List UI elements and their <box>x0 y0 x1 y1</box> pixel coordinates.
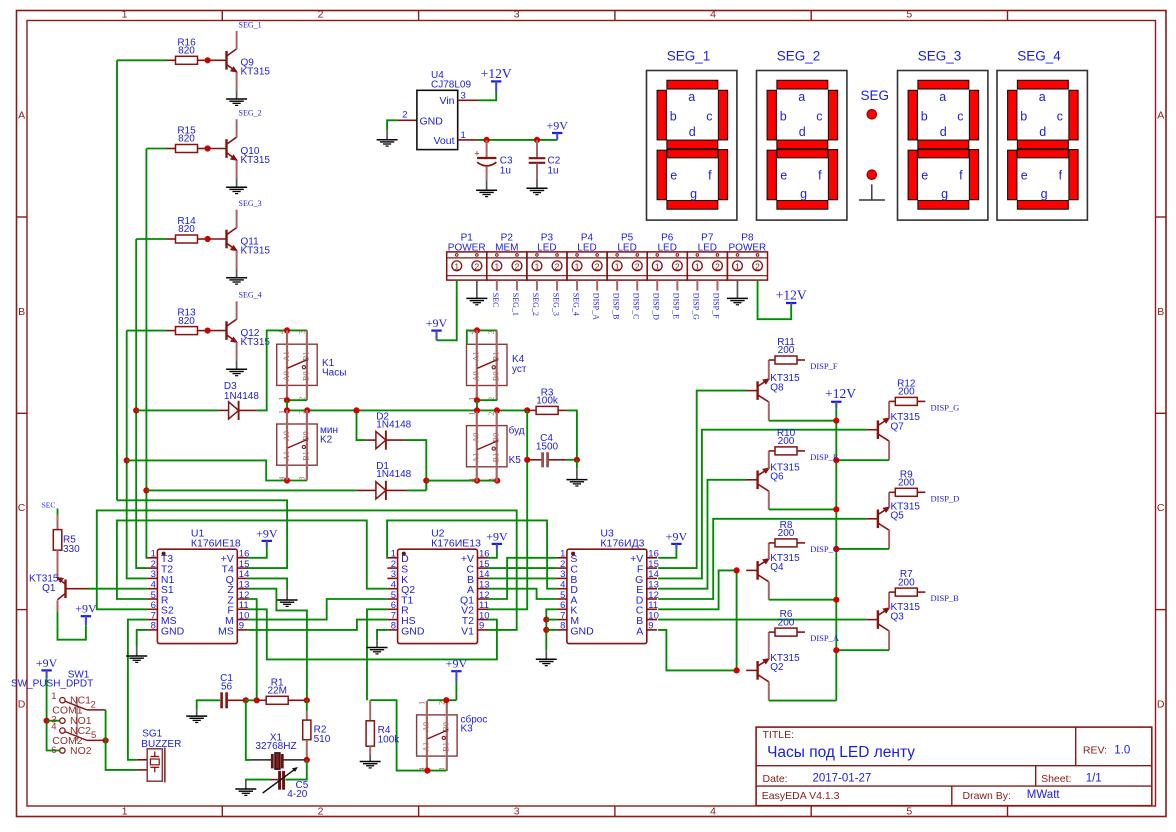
wire down to C5 <box>286 760 307 780</box>
svg-text:a: a <box>688 90 695 104</box>
svg-text:+9V: +9V <box>75 602 97 616</box>
net label DISP_A below connector <box>591 280 600 320</box>
svg-text:B: B <box>18 306 25 318</box>
colon dot upper <box>867 110 876 119</box>
net label SEC below connector <box>491 280 500 307</box>
ground at R4 <box>360 755 381 768</box>
svg-text:200: 200 <box>898 577 915 588</box>
svg-text:2: 2 <box>318 8 324 20</box>
svg-text:4: 4 <box>467 478 476 482</box>
wire to NO1 <box>47 720 60 722</box>
wire K4 bottom to bus <box>476 400 478 410</box>
wire K5 bottom pins line <box>426 480 497 482</box>
svg-text:1: 1 <box>575 261 580 271</box>
net label DISP_F below connector <box>712 280 721 319</box>
svg-text:B1: B1 <box>492 352 501 362</box>
junction dot C4 left <box>524 457 530 463</box>
junction dot K1 bottom left pin <box>284 397 290 403</box>
emitter stub of Q11 <box>236 251 238 269</box>
ground at U2 pin8 <box>367 640 388 654</box>
resistor R4 100k vertical <box>366 700 400 755</box>
connector P4 LED <box>567 233 607 281</box>
svg-text:2: 2 <box>515 261 520 271</box>
svg-text:SEG_4: SEG_4 <box>239 291 262 300</box>
svg-text:5: 5 <box>906 8 912 20</box>
svg-text:SEG_2: SEG_2 <box>239 109 262 118</box>
svg-text:SG1: SG1 <box>142 728 162 739</box>
capacitor C5 4-20 variable <box>263 767 309 800</box>
wire A net U3 pin9 to Q2 base <box>658 630 737 671</box>
svg-text:K5: K5 <box>509 455 522 466</box>
wire K2 bottom branch from SEG_4 column <box>127 460 308 480</box>
base stub Q8 <box>746 390 757 392</box>
IC U3 К176ИД3 <box>557 528 659 644</box>
svg-text:V1: V1 <box>461 625 474 637</box>
svg-text:4-20: 4-20 <box>287 789 307 800</box>
transistor Q6 KT315 <box>758 462 801 491</box>
junction dot SEG_3 / D3 branch <box>133 407 139 413</box>
svg-text:4: 4 <box>710 805 716 817</box>
svg-text:A0: A0 <box>472 433 481 443</box>
svg-text:a: a <box>1039 90 1046 104</box>
net label DISP_D below connector <box>651 280 660 320</box>
svg-text:GND: GND <box>420 115 444 127</box>
svg-text:820: 820 <box>178 134 195 145</box>
net label SEG_1 below connector <box>511 280 520 316</box>
svg-text:+9V: +9V <box>486 529 508 543</box>
svg-text:e: e <box>780 169 787 183</box>
wire K4 top pins line <box>467 330 497 344</box>
svg-text:Часы под LED ленту: Часы под LED ленту <box>767 744 915 761</box>
wire U1 pin12 Z down to R1 junction <box>248 599 257 700</box>
svg-text:KT315: KT315 <box>241 155 271 166</box>
svg-text:Date:: Date: <box>763 773 788 785</box>
svg-text:a: a <box>939 90 946 104</box>
wire G net U3 pin14 to Q7 base <box>658 430 866 579</box>
svg-text:SW_PUSH_DPDT: SW_PUSH_DPDT <box>11 678 93 689</box>
svg-text:MWatt: MWatt <box>1027 789 1061 801</box>
transistor Q3 KT315 <box>878 602 921 631</box>
wire P1 pin1 to +9V flag <box>437 291 457 341</box>
svg-text:8: 8 <box>391 621 396 632</box>
wire D net U3 pin12 to Q5 base <box>658 519 866 599</box>
svg-text:2: 2 <box>91 699 96 710</box>
svg-text:DISP_E: DISP_E <box>810 452 838 462</box>
svg-text:B0: B0 <box>302 371 311 381</box>
wire U2 pin8 GND to ground <box>377 630 387 640</box>
svg-text:+12V: +12V <box>481 66 512 81</box>
transistor Q4 KT315 <box>758 553 801 582</box>
net label DISP_B below connector <box>611 280 620 319</box>
ground at connector pin x=476.85 <box>476 280 478 290</box>
power flag +9V at U4 Vout <box>546 118 568 140</box>
relay K2 мин <box>277 410 338 481</box>
collector stub of Q9 <box>236 31 238 49</box>
svg-text:Q5: Q5 <box>891 511 905 522</box>
wire SW1 pin2 down to SG1 <box>106 710 137 770</box>
svg-text:DISP_G: DISP_G <box>931 402 960 412</box>
svg-text:B0: B0 <box>492 372 501 382</box>
svg-text:1: 1 <box>417 701 426 705</box>
relay K5 буд <box>467 412 525 483</box>
power flag +9V near K4 <box>426 316 448 340</box>
wire link Q4 base to Q2 base column <box>736 570 738 670</box>
wire +12V rail vertical <box>835 408 837 700</box>
junction dot Q2 base <box>734 667 740 673</box>
svg-text:e: e <box>670 169 677 183</box>
svg-text:B1: B1 <box>442 742 451 752</box>
svg-text:+9V: +9V <box>666 529 688 543</box>
svg-text:A0: A0 <box>472 371 481 381</box>
power flag +9V at SW1 <box>36 656 58 679</box>
junction dot D1-D2/K5 bottom <box>423 478 429 484</box>
wire U4 GND pin to ground <box>387 120 417 130</box>
net label DISP_G below connector <box>692 280 701 320</box>
svg-text:2: 2 <box>635 261 640 271</box>
junction dot C2 top <box>534 137 540 143</box>
svg-text:1: 1 <box>695 261 700 271</box>
collector stem Q6 <box>768 491 770 509</box>
svg-text:DISP_A: DISP_A <box>810 633 840 643</box>
junction dot K3 top right pin <box>443 697 449 703</box>
collector stem Q4 <box>768 582 770 600</box>
svg-text:A: A <box>636 625 643 637</box>
svg-text:B0: B0 <box>442 722 451 732</box>
svg-text:1u: 1u <box>548 165 559 176</box>
svg-text:SEG: SEG <box>860 88 889 103</box>
wire R13 to Q12 base <box>208 330 227 332</box>
wire U3 pin6 K to ground chain <box>546 609 556 650</box>
svg-text:B1: B1 <box>302 351 311 361</box>
svg-text:Q7: Q7 <box>891 422 905 433</box>
svg-text:A1: A1 <box>472 453 481 463</box>
wire D3 cathode up to K1 top pins <box>257 330 307 410</box>
wire E net U3 pin13 to Q6 base <box>658 480 746 589</box>
svg-text:200: 200 <box>778 528 795 539</box>
base stub Q4 <box>746 569 757 571</box>
wire D1 cathode to K5 bottom junction <box>406 489 426 491</box>
wire D3 anode from SEG_3 column <box>136 409 219 411</box>
svg-text:c: c <box>816 110 822 124</box>
wire U2 pin16 to +9V flag <box>487 550 497 558</box>
collector stub of Q10 <box>236 119 238 137</box>
svg-text:g: g <box>941 187 948 201</box>
svg-text:1/1: 1/1 <box>1086 772 1102 784</box>
junction dot rail at Q7 <box>833 457 839 463</box>
svg-text:EasyEDA V4.1.3: EasyEDA V4.1.3 <box>762 790 840 802</box>
emitter stem Q2 to R6 <box>768 632 770 659</box>
collector stem Q1 <box>57 600 59 612</box>
wire U1 pin13 Z staircase down <box>248 589 307 701</box>
svg-text:буд: буд <box>509 425 525 437</box>
wire bus y=410.4 K1 to R3 <box>287 409 527 411</box>
svg-text:GND: GND <box>161 625 185 637</box>
ground at U1 pin8 <box>126 646 147 662</box>
junction dot K4 top left pin <box>474 327 480 333</box>
emitter stem Q4 to R8 <box>768 543 770 559</box>
svg-text:d: d <box>799 125 806 139</box>
resistor R7 200 <box>889 569 925 596</box>
svg-text:Q1: Q1 <box>42 583 56 594</box>
junction dot SW1 pin5 <box>103 737 109 743</box>
svg-text:DISP_B: DISP_B <box>931 593 960 603</box>
svg-text:32768HZ: 32768HZ <box>255 741 296 752</box>
svg-text:D: D <box>1157 698 1165 710</box>
svg-text:1: 1 <box>615 261 620 271</box>
transistor Q11 KT315 <box>227 228 271 257</box>
svg-text:g: g <box>1041 187 1048 201</box>
svg-text:NO2: NO2 <box>70 745 92 757</box>
junction dot SW1 NO1 <box>44 718 50 724</box>
wire R14 to Q11 base <box>208 238 227 240</box>
svg-text:56: 56 <box>221 682 233 693</box>
base stub Q3 <box>867 619 878 621</box>
svg-text:SEG_4: SEG_4 <box>1017 48 1061 63</box>
wire Q1 collector to U1 pin4 S1 <box>89 588 148 590</box>
svg-text:1: 1 <box>535 261 540 271</box>
svg-text:+9V: +9V <box>426 316 448 330</box>
wire Q6 collector to +12V rail <box>769 508 837 510</box>
connector P6 LED <box>647 233 687 281</box>
svg-text:f: f <box>1059 169 1063 183</box>
wire U3 pin16 to +9V flag <box>658 550 676 558</box>
wire K4 bottom pins bridge <box>477 399 497 401</box>
svg-text:1: 1 <box>494 261 499 271</box>
power flag +9V at Q1 <box>75 602 97 626</box>
junction dot SEG_4 / K2 branch <box>124 457 130 463</box>
ground at C1 left <box>186 709 207 722</box>
wire C5 left to ground <box>246 779 271 781</box>
ground at U4 GND <box>377 130 398 146</box>
transistor Q10 KT315 <box>227 137 271 166</box>
connector P8 POWER <box>727 233 767 281</box>
svg-text:820: 820 <box>178 316 195 327</box>
connector P1 POWER <box>447 233 487 281</box>
svg-text:1N4148: 1N4148 <box>376 419 411 430</box>
svg-text:2: 2 <box>402 109 407 120</box>
svg-text:DISP_D: DISP_D <box>651 293 660 320</box>
wire U2 pin1 D to U3 pin4 D <box>387 520 556 588</box>
svg-text:1: 1 <box>735 261 740 271</box>
svg-text:2: 2 <box>487 412 496 416</box>
svg-text:c: c <box>1057 110 1063 124</box>
wire Q2 collector to +12V rail <box>769 700 837 702</box>
resistor R9 200 <box>889 469 925 496</box>
wire C1 to R1 <box>246 699 257 701</box>
junction dot U3 pin7 M <box>543 617 549 623</box>
seven segment display SEG_3 <box>898 48 988 220</box>
power flag +12V at P8 <box>776 287 807 305</box>
svg-text:+12V: +12V <box>776 287 807 302</box>
ground at U3 pin6-8 <box>536 650 557 665</box>
svg-text:b: b <box>780 110 787 124</box>
wire R3 right down to C4 right <box>567 410 577 459</box>
junction dot K2 bottom left pin <box>284 477 290 483</box>
wire P1 pin1 down <box>456 280 458 291</box>
junction dot U3 pin8 GND <box>543 627 549 633</box>
resistor R13 820 <box>167 308 206 335</box>
net label DISP_E below connector <box>672 280 681 319</box>
svg-text:MS: MS <box>218 625 234 637</box>
resistor R3 100k <box>527 387 566 414</box>
ground at U1 pin14 <box>277 590 298 607</box>
svg-text:D: D <box>18 698 26 710</box>
svg-text:1: 1 <box>122 805 128 817</box>
ground at connector pin x=737.4499999999999 <box>736 280 738 290</box>
junction dot R1 left <box>254 697 260 703</box>
emitter stem Q7 to R12 <box>888 401 890 418</box>
frame column numbers bottom <box>122 805 913 817</box>
wire SEC stub to R5 <box>57 509 59 515</box>
wire U1 pin15 T4 (see SEG_1 column) <box>0 0 1 1</box>
svg-text:TITLE:: TITLE: <box>763 729 795 741</box>
svg-text:e: e <box>1021 169 1028 183</box>
svg-text:K3: K3 <box>461 724 474 735</box>
capacitor C3 1u polarized <box>474 140 513 180</box>
svg-text:B: B <box>1157 306 1164 318</box>
junction dot rail at Q8 <box>833 418 839 424</box>
wire K3 top pins to +9V <box>427 699 456 701</box>
svg-text:C: C <box>18 502 26 514</box>
svg-text:200: 200 <box>898 387 915 398</box>
junction dot at R14 output <box>205 236 211 242</box>
junction dot at R15 output <box>205 145 211 151</box>
svg-text:DISP_D: DISP_D <box>931 493 960 503</box>
ground at Q9 emitter <box>226 90 247 105</box>
resistor R16 820 <box>167 37 206 64</box>
wire C1 left to ground <box>197 700 220 709</box>
wire D1 anode line y=490.4 <box>146 489 356 491</box>
ground at Q10 emitter <box>226 179 247 194</box>
svg-text:A0: A0 <box>282 371 291 381</box>
junction dot C3 top <box>484 137 490 143</box>
junction dot K3 bottom left pin <box>424 768 430 774</box>
net label SEG_2 below connector <box>531 280 540 316</box>
junction dot K4 bottom left pin <box>474 397 480 403</box>
wire Q3 collector to +12V rail <box>836 649 889 651</box>
net label DISP_C below connector <box>631 280 640 319</box>
svg-text:3: 3 <box>487 478 496 482</box>
svg-text:3: 3 <box>297 477 306 481</box>
svg-text:B1: B1 <box>492 453 501 463</box>
ground below C2 <box>527 178 548 194</box>
svg-text:b: b <box>1020 110 1027 124</box>
svg-text:330: 330 <box>63 544 80 555</box>
svg-text:1: 1 <box>278 410 287 414</box>
frame row letters <box>18 110 1165 711</box>
svg-text:Vin: Vin <box>440 95 455 107</box>
wire Q5 collector to +12V rail <box>836 548 889 550</box>
IC U1 К176ИЕ18 <box>147 528 249 644</box>
collector stem Q8 <box>768 402 770 421</box>
junction dot at R16 output <box>205 57 211 63</box>
wire F net U3 pin15 to Q8 base <box>658 391 746 568</box>
wire P8 pin2 to +12V flag <box>758 280 792 319</box>
svg-text:100k: 100k <box>378 734 401 745</box>
wire K3 bottom pins bridge <box>427 770 446 772</box>
svg-text:b: b <box>670 110 677 124</box>
resistor R6 200 <box>769 609 805 636</box>
svg-text:SEC: SEC <box>491 293 500 308</box>
svg-text:200: 200 <box>778 345 795 356</box>
svg-text:1: 1 <box>454 261 459 271</box>
svg-text:SEG_1: SEG_1 <box>239 20 262 29</box>
net label SEG_3 below connector <box>551 280 560 316</box>
junction dot bus/D2 branch <box>353 407 359 413</box>
junction dot bus/K5 top right pin <box>494 407 500 413</box>
svg-text:Sheet:: Sheet: <box>1041 773 1071 785</box>
svg-text:К176ИЕ13: К176ИЕ13 <box>431 538 481 550</box>
svg-text:b: b <box>921 110 928 124</box>
svg-text:DISP_C: DISP_C <box>810 544 839 554</box>
wire SEG_4 net from column x=126.7 <box>127 330 167 332</box>
ground below C3 <box>476 180 497 196</box>
frame column numbers top <box>122 8 913 20</box>
junction dot K5 bottom left pin <box>474 478 480 484</box>
emitter stub of Q9 <box>236 72 238 90</box>
wire K1 bottom to bus y=410.4 <box>286 400 288 410</box>
collector stem Q3 <box>888 631 890 650</box>
svg-text:B0: B0 <box>302 431 311 441</box>
crystal X1 32768HZ <box>251 732 307 769</box>
capacitor C1 56 <box>220 673 246 708</box>
connector P7 LED <box>687 233 727 281</box>
IC U2 К176ИЕ13 <box>387 528 489 644</box>
svg-text:2: 2 <box>675 261 680 271</box>
ground at Q11 emitter <box>226 269 247 284</box>
junction dot rail at Q5 <box>833 546 839 552</box>
svg-text:6: 6 <box>51 745 56 756</box>
wire U1 pin14 Q to ground <box>248 578 288 589</box>
power flag +9V at U2 <box>486 529 508 550</box>
junction dot R2 bottom / X1 right <box>304 757 310 763</box>
wire R5 to Q1 emitter <box>57 550 59 577</box>
wire U1 pin16 to +9V flag <box>248 547 267 558</box>
junction dot at R13 output <box>205 328 211 334</box>
svg-text:2: 2 <box>755 261 760 271</box>
wire SEG_1 net from column x=117.0 <box>117 59 167 61</box>
svg-text:9: 9 <box>648 621 653 632</box>
svg-text:1: 1 <box>655 261 660 271</box>
wire Q1 collector to +9V flag <box>58 612 86 640</box>
svg-text:+9V: +9V <box>446 657 468 671</box>
svg-text:+9V: +9V <box>546 118 568 132</box>
svg-text:B1: B1 <box>302 451 311 461</box>
svg-text:200: 200 <box>898 478 915 489</box>
title block <box>756 727 1152 806</box>
emitter stem Q6 to R10 <box>768 451 770 469</box>
junction dot SEG_2 / D1 branch <box>143 487 149 493</box>
relay K3 сброс <box>417 701 488 772</box>
wire U2 pin15 C to U3 pin2 <box>487 567 556 569</box>
svg-text:510: 510 <box>314 734 331 745</box>
emitter stem Q8 to R11 <box>768 360 770 379</box>
collector stem Q7 <box>888 441 890 460</box>
svg-text:+12V: +12V <box>825 386 856 401</box>
resistor R11 200 <box>769 337 805 364</box>
svg-text:A: A <box>18 110 25 122</box>
svg-text:2017-01-27: 2017-01-27 <box>813 772 872 784</box>
wire K1 bottom pins bridge <box>287 399 307 401</box>
diode D2 1N4148 <box>366 411 411 449</box>
wire D2 anode drop from bus <box>357 410 367 440</box>
transistor Q2 KT315 <box>758 653 801 682</box>
svg-text:g: g <box>800 187 807 201</box>
svg-text:f: f <box>959 169 963 183</box>
junction dot rail at Q4 <box>833 597 839 603</box>
wire U1 pin11 F to U2 pin10 T2 long route <box>248 609 497 659</box>
collector stem Q5 <box>888 530 890 549</box>
